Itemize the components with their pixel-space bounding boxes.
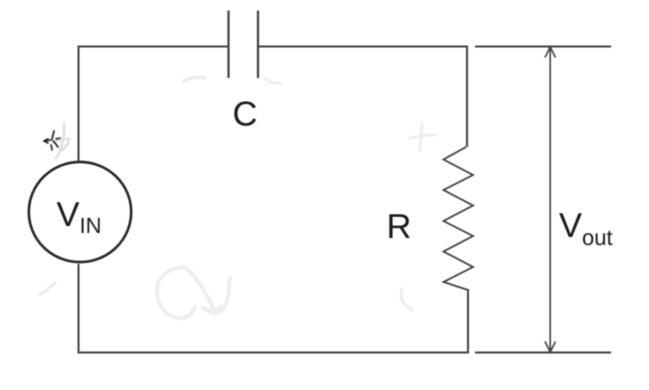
voltage source VIN circle (29, 162, 131, 262)
wire: top horizontal right segment (capacitor to right branch) (258, 46, 468, 48)
capacitor C left plate (227, 11, 229, 79)
Vout top reference line (475, 46, 611, 48)
faint pen scribble: light cross near VIN top (54, 123, 69, 158)
faint pen scribble: dash under capacitor (184, 77, 205, 81)
wire: left vertical upper (top wire down to VIN) (78, 46, 80, 162)
dark pen mark: small asterisk annotation near VIN top (44, 131, 60, 150)
wire: right vertical lower (resistor to bottom wire) (467, 289, 469, 354)
faint pen scribble: plus near resistor top (410, 124, 435, 150)
faint pen scribble: arc left of resistor bottom (401, 289, 412, 310)
faint pen scribble: smudge right of capacitor (266, 79, 281, 83)
wire: right vertical upper (top wire to resistor) (466, 46, 468, 148)
Vout measurement arrow (double-headed vertical) (545, 47, 556, 352)
wire: left vertical lower (VIN to bottom wire) (78, 264, 80, 354)
wire: bottom horizontal (78, 352, 469, 354)
capacitor C right plate (257, 11, 259, 79)
svg-text:C: C (232, 95, 257, 133)
svg-text:R: R (386, 208, 411, 246)
faint pen scribble: loop with arrow (bottom middle) (157, 267, 230, 318)
faint pen scribble: check mark left of bottom wire (40, 283, 55, 294)
wire: top horizontal left segment (from left branch to capacitor) (79, 46, 229, 48)
resistor R zigzag (444, 147, 474, 290)
Vout bottom reference line (475, 352, 611, 354)
